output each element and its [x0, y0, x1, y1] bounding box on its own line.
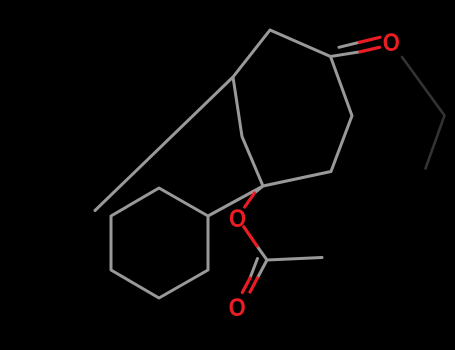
svg-text:O: O — [383, 29, 400, 57]
svg-text:O: O — [229, 294, 246, 322]
svg-text:O: O — [229, 205, 246, 233]
